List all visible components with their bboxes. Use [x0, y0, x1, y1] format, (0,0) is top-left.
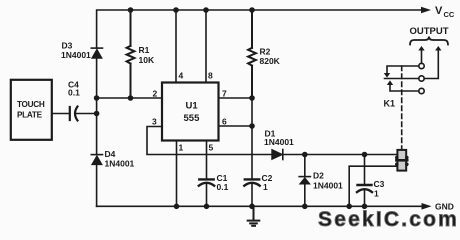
svg-text:D2: D2	[313, 171, 324, 181]
ground rail	[97, 205, 422, 207]
svg-text:TOUCH: TOUCH	[17, 100, 45, 109]
wire pin 8	[205, 10, 207, 83]
wire pin 1 to ground rail	[176, 141, 178, 207]
diode D2	[299, 155, 310, 207]
svg-text:R1: R1	[139, 45, 150, 55]
svg-text:6: 6	[222, 117, 227, 127]
wire middle contact left	[385, 78, 419, 80]
resistor R1	[127, 10, 135, 98]
svg-text:CC: CC	[444, 10, 455, 19]
svg-text:R2: R2	[260, 47, 271, 57]
svg-text:SeekIC.com: SeekIC.com	[318, 208, 459, 228]
svg-text:1: 1	[179, 143, 184, 153]
brace over output arrows	[410, 37, 448, 45]
svg-text:1N4001: 1N4001	[264, 137, 294, 147]
node GND arrowhead	[422, 203, 432, 210]
svg-text:D4: D4	[105, 149, 116, 159]
wire R2 node down through pins 7,6 to C2	[251, 98, 253, 179]
wire C4 node down to D4	[96, 98, 98, 155]
svg-text:1N4001: 1N4001	[61, 50, 91, 60]
capacitor C1	[199, 179, 214, 206]
svg-text:555: 555	[184, 113, 201, 124]
capacitor C2	[244, 179, 259, 206]
svg-text:1: 1	[263, 182, 268, 192]
svg-text:D3: D3	[62, 41, 73, 51]
svg-text:K1: K1	[384, 99, 396, 109]
svg-text:4: 4	[179, 71, 184, 81]
svg-text:7: 7	[222, 89, 227, 99]
svg-text:3: 3	[152, 117, 157, 127]
svg-text:1N4001: 1N4001	[105, 159, 135, 169]
svg-text:2: 2	[153, 89, 158, 99]
svg-text:1: 1	[374, 189, 379, 199]
wire top contact up	[421, 50, 423, 63]
wire pin 6	[219, 125, 253, 127]
wire pin 7	[219, 97, 253, 99]
relay coil K1	[395, 150, 409, 171]
wire pin 4	[175, 10, 177, 83]
pin number labels 4 8 2 7 3 6 1 5	[152, 71, 227, 153]
wire Vcc top rail	[97, 10, 421, 48]
svg-text:820K: 820K	[260, 56, 281, 66]
ground symbol	[248, 206, 260, 226]
svg-text:10K: 10K	[139, 55, 155, 65]
resistor R2	[248, 10, 256, 98]
IC U1 555 box	[162, 83, 219, 141]
dashed link K1	[401, 66, 403, 150]
diode D4	[91, 155, 102, 207]
wire middle contact right and up	[424, 50, 438, 79]
contact circle top	[419, 63, 424, 68]
svg-text:PLATE: PLATE	[17, 111, 43, 120]
wire pin 5 to C1	[206, 141, 208, 180]
svg-text:5: 5	[209, 143, 214, 153]
svg-text:8: 8	[208, 71, 213, 81]
svg-text:U1: U1	[186, 101, 199, 112]
relay contacts K1	[384, 46, 442, 94]
node Vcc arrowhead	[421, 7, 431, 14]
diode D1	[272, 150, 398, 160]
svg-text:0.1: 0.1	[217, 182, 229, 192]
touch plate box	[11, 80, 52, 140]
diode D3	[91, 48, 102, 98]
svg-text:V: V	[435, 5, 443, 17]
contact circle middle	[419, 76, 424, 81]
wire bottom contact left with up arrow	[390, 85, 419, 92]
svg-text:OUTPUT: OUTPUT	[410, 26, 449, 37]
wire node to pin2	[97, 97, 162, 99]
wire top contact left with down arrow	[387, 66, 419, 74]
svg-text:0.1: 0.1	[68, 88, 80, 98]
capacitor C3	[357, 154, 372, 206]
wire pin 3 output to D1	[147, 127, 272, 155]
capacitor C4	[52, 107, 97, 121]
svg-text:1N4001: 1N4001	[313, 181, 343, 191]
svg-text:C3: C3	[374, 179, 385, 189]
wire relay coil bottom return to ground	[349, 166, 397, 206]
contact circle bottom	[419, 88, 424, 93]
